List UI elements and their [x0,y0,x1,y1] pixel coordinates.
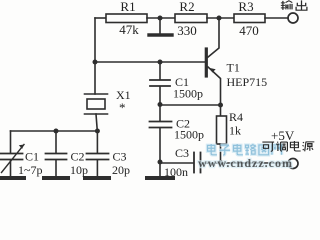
svg-text:C2: C2 [71,150,85,164]
ground (under C3 20p) [85,176,109,180]
transistor T1 emitter arrow (PNP, toward base) [209,68,215,73]
wire middle ground stem [159,162,161,176]
svg-text:R1: R1 [120,0,135,14]
transistor T1 collector [208,18,219,57]
wire left vertical rail [94,18,96,62]
node C1 top tap [158,60,163,65]
svg-text:100n: 100n [164,165,188,179]
transistor T1 base bar [205,49,208,76]
wire crystal bottom stem [96,114,97,131]
capacitor C2 1500p [159,105,161,121]
label 输出 (output) chinese glyphs [281,0,307,10]
svg-text:R4: R4 [229,110,243,124]
transistor T1 emitter [208,67,221,105]
node base rail left [93,60,98,65]
crystal X1 [85,93,108,95]
node C2-10p tap [54,129,59,134]
svg-text:C3: C3 [175,146,189,160]
node R1-R2 junction [158,16,163,21]
capacitor C1 1500p [159,62,161,80]
svg-text:1~7p: 1~7p [18,163,43,177]
wire supply rail to +5V terminal [221,162,289,164]
svg-text:R3: R3 [238,0,253,14]
ground (under C2 10p) [44,176,68,180]
node R4 bottom / supply [218,160,223,165]
node emitter rail left [158,102,163,107]
svg-text:47k: 47k [119,22,139,37]
svg-text:C1: C1 [25,150,39,164]
svg-text:330: 330 [177,23,197,38]
svg-text:1500p: 1500p [174,128,204,142]
svg-text:+5V: +5V [271,128,295,143]
output terminal circle [288,13,298,23]
node emitter/R4 top [218,103,223,108]
wire R2 to node [207,17,234,19]
resistor R1 [106,14,147,23]
capacitor C3 20p [96,131,98,153]
capacitor C1 variable 1~7p [10,131,12,153]
node collector junction [217,16,222,21]
wire R3 to output terminal [265,17,288,19]
svg-text:C3: C3 [113,150,127,164]
wire base rail [95,61,205,63]
svg-text:1500p: 1500p [173,87,203,101]
label 可调电源 (adjustable power) chinese glyphs [262,141,314,151]
svg-text:470: 470 [239,23,259,38]
ground (under middle column) [147,176,173,180]
capacitor C2 10p [55,131,57,153]
wire bottom-left rail [11,130,98,132]
svg-text:www.cndzz.com: www.cndzz.com [198,156,293,170]
svg-text:R2: R2 [179,0,194,14]
node C3 100n junction [158,160,163,165]
svg-text:10p: 10p [70,163,88,177]
+5V terminal circle [288,159,298,169]
wire top rail left segment [95,17,106,19]
svg-text:HEP715: HEP715 [227,75,268,89]
wire emitter rail [160,104,221,106]
svg-text:20p: 20p [112,163,130,177]
ground (top, at R1/R2 junction) [159,18,161,33]
svg-text:1k: 1k [229,124,241,138]
svg-text:T1: T1 [227,61,240,75]
svg-text:*: * [119,100,126,115]
node C3-20p / crystal junction [95,129,100,134]
ground (under C1 var) [0,176,24,180]
resistor R2 [175,14,207,23]
wire crystal top stem [94,62,96,94]
resistor R4 [220,105,222,116]
capacitor C3 100n (horizontal) [160,162,194,164]
watermark 电子电路图网 chinese glyphs halo (blue) [207,144,281,155]
resistor R3 [234,14,265,23]
wire R1 to node [147,17,175,19]
watermark 电子电路图网 chinese glyphs (blue) [207,144,281,155]
